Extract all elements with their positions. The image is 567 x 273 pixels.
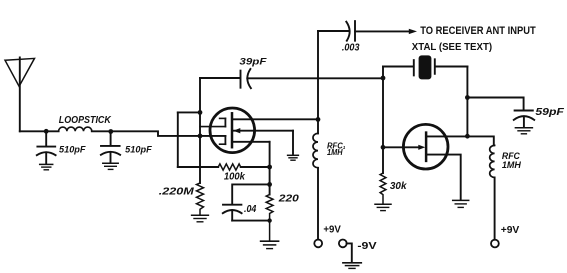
svg-text:1MH: 1MH (327, 148, 343, 157)
svg-text:.04: .04 (244, 204, 257, 215)
svg-text:100k: 100k (224, 172, 246, 183)
svg-text:TO RECEIVER ANT INPUT: TO RECEIVER ANT INPUT (420, 25, 536, 37)
svg-text:1MH: 1MH (502, 160, 522, 170)
svg-text:39pF: 39pF (239, 57, 266, 67)
svg-text:510pF: 510pF (59, 145, 86, 155)
svg-text:220: 220 (278, 193, 299, 205)
svg-text:+9V: +9V (501, 225, 520, 236)
svg-text:+9V: +9V (323, 225, 341, 236)
svg-text:-9V: -9V (357, 241, 376, 252)
svg-text:59pF: 59pF (535, 107, 565, 118)
svg-text:.003: .003 (342, 42, 360, 53)
svg-text:30k: 30k (390, 181, 407, 192)
svg-text:.220M: .220M (159, 186, 195, 197)
svg-text:XTAL (SEE TEXT): XTAL (SEE TEXT) (412, 42, 492, 53)
svg-text:LOOPSTICK: LOOPSTICK (59, 115, 112, 126)
svg-text:510pF: 510pF (125, 144, 152, 154)
